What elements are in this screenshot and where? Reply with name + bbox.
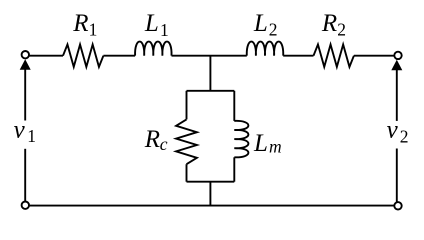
svg-text:v: v [14,117,26,144]
arrow right (v2 polarity, pointing up) [391,60,402,71]
wire node down to shunt top bar [209,56,211,91]
terminal circle bottom-left [22,202,29,209]
terminal circle top-left [22,51,29,58]
svg-text:1: 1 [160,20,169,40]
svg-text:c: c [160,134,168,154]
wire Rc to bottom bar [186,164,188,182]
svg-text:2: 2 [269,19,278,39]
resistor Rc (vertical) [176,119,197,164]
svg-text:2: 2 [337,19,346,39]
wire right vertical upper [396,70,398,121]
terminal circle top-right [394,52,401,59]
wire top bar down to Lm [233,91,235,121]
svg-text:L: L [253,130,268,157]
wire left vertical upper (arrow to v1 gap) [24,69,26,121]
svg-text:2: 2 [400,127,409,147]
wire R1 to L1 [103,55,135,57]
svg-text:L: L [144,10,159,37]
svg-text:m: m [269,136,282,156]
wire shunt top bar [187,90,235,92]
inductor L1 [135,42,171,56]
terminal circle bottom-right [394,202,401,209]
inductor Lm (vertical) [234,121,248,157]
wire shunt bottom bar [187,181,235,183]
svg-text:R: R [321,10,337,37]
arrow left (v1 polarity, pointing up) [20,59,31,70]
inductor L2 [247,42,283,56]
svg-text:1: 1 [27,126,36,146]
wire Lm to bottom bar [233,157,235,181]
svg-text:R: R [144,126,160,153]
wire bottom rail [27,205,396,207]
wire R2 to right terminal [354,55,396,57]
svg-text:L: L [253,10,268,37]
svg-text:R: R [72,10,88,37]
wire L2 to R2 [283,55,313,57]
wire bottom bar down to bottom rail [209,182,211,206]
wire top-left: terminal to R1 [27,55,63,57]
resistor R2 [314,45,354,67]
resistor R1 [63,45,103,67]
wire right vertical lower [396,149,398,204]
svg-text:v: v [387,117,399,144]
wire left vertical lower (v1 gap to bottom terminal) [24,149,26,203]
wire L1 to node to L2 [172,55,247,57]
wire top bar down to Rc [186,91,188,120]
svg-text:1: 1 [89,20,98,40]
